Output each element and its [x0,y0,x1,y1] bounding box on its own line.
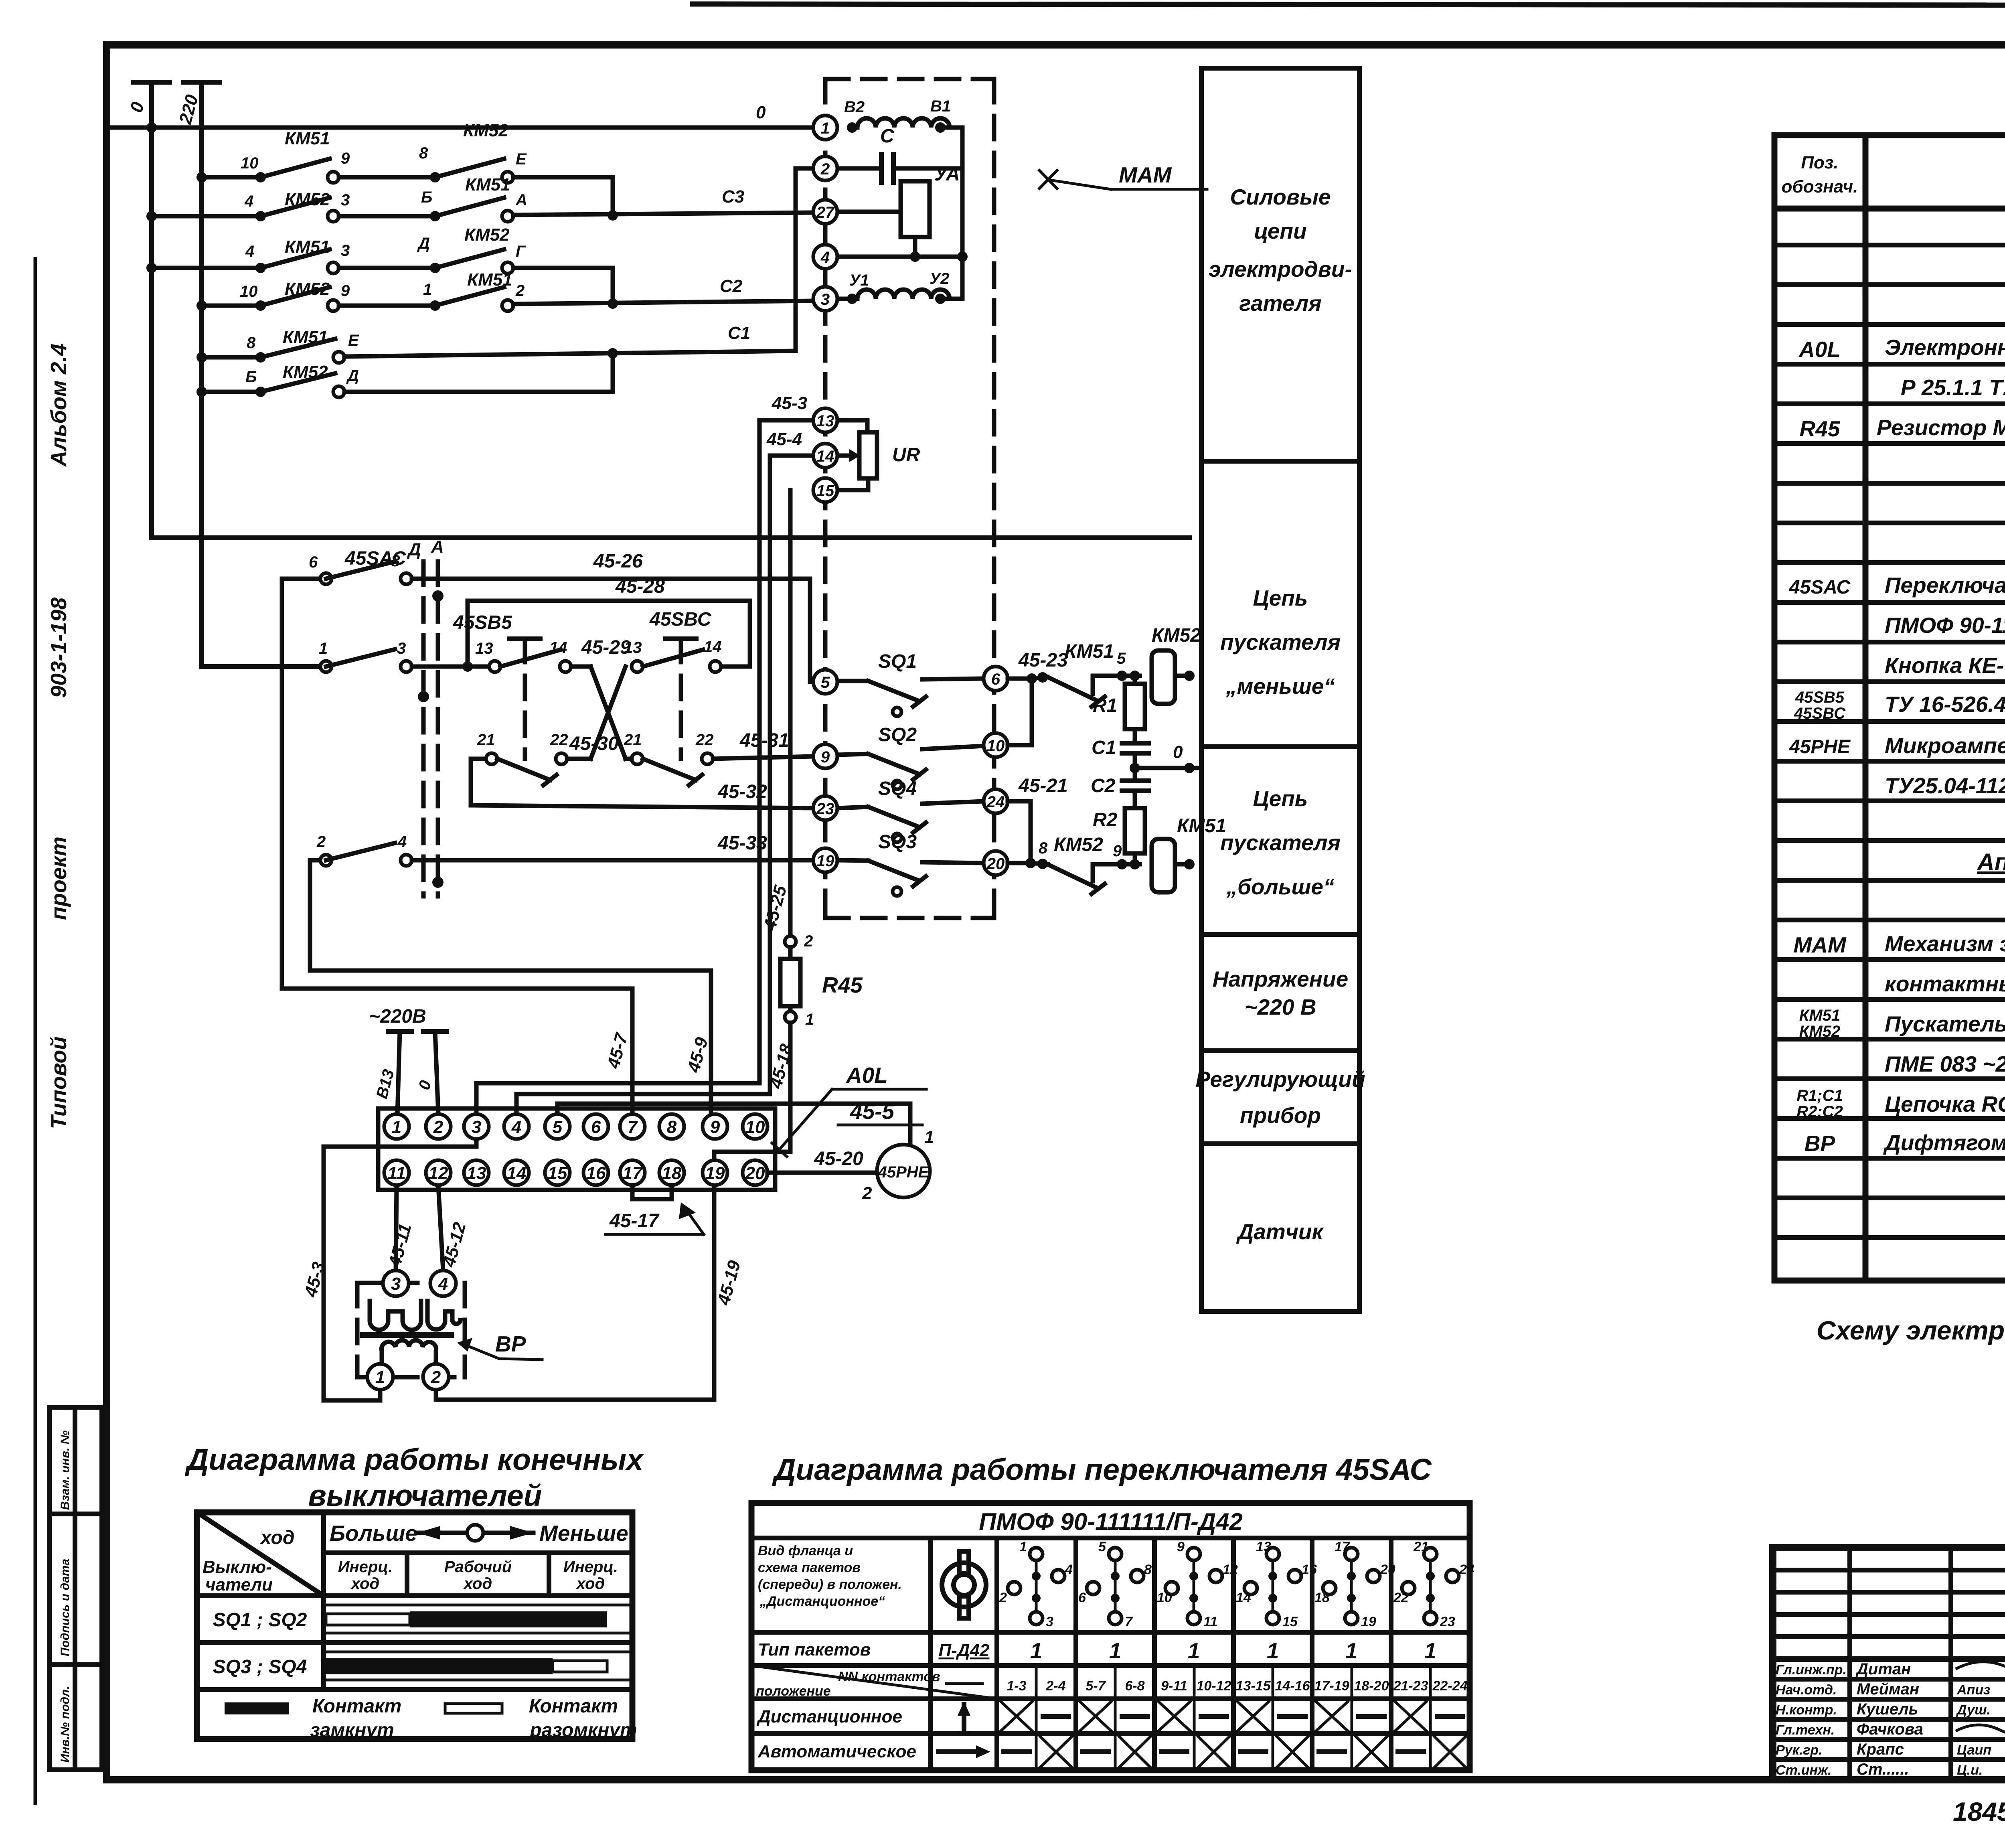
svg-text:6: 6 [991,671,1000,688]
svg-text:Поз.: Поз. [1801,153,1838,172]
svg-text:4: 4 [244,192,253,210]
svg-text:2: 2 [804,932,813,950]
relay coil YA [837,164,960,257]
svg-text:П-Д42: П-Д42 [938,1641,990,1660]
wire row 1-3 (45SAC pole) [319,640,489,672]
svg-text:1: 1 [1424,1638,1437,1663]
svg-text:ПМОФ 90-111111/П-Д42: ПМОФ 90-111111/П-Д42 [979,1508,1243,1535]
svg-text:6-8: 6-8 [1125,1678,1144,1694]
wire 45-4 riser (UR 14 to A0L pin 4) [516,456,770,1114]
svg-text:7: 7 [1125,1614,1133,1629]
contact KM51 row C [146,237,350,274]
svg-text:9: 9 [710,1117,720,1137]
inductor U1-U2 (motor winding 2) [837,128,962,304]
BP terminal circle 3 [383,1270,409,1296]
svg-text:SQ3: SQ3 [878,831,917,853]
label: starter circuit more [1220,786,1341,899]
svg-text:Д: Д [417,235,430,252]
title block [1773,1548,2005,1780]
svg-text:24: 24 [1459,1562,1474,1577]
svg-text:Мейман: Мейман [1857,1680,1919,1698]
svg-text:Переключатель малогабаритный: Переключатель малогабаритный [1885,573,2005,598]
svg-text:Силовые: Силовые [1230,184,1331,209]
svg-text:Цепь: Цепь [1253,586,1308,610]
contact KM51 row E [196,168,813,363]
svg-text:Взам. инв. №: Взам. инв. № [59,1431,72,1510]
svg-text:Р 25.1.1 ТУ 25.02.194: Р 25.1.1 ТУ 25.02.1948-76 [1901,375,2005,400]
svg-text:45-3: 45-3 [772,393,807,413]
label: voltage 220V [1213,967,1348,1019]
svg-text:Рабочий: Рабочий [444,1558,512,1576]
svg-text:Автоматическое: Автоматическое [757,1742,916,1761]
svg-text:Механизм электрический одноо: Механизм электрический однооборотный [1885,931,2005,956]
svg-text:20: 20 [986,855,1005,873]
svg-text:SQ2: SQ2 [878,724,917,746]
svg-text:Альбом 2.4: Альбом 2.4 [46,344,71,468]
svg-text:4: 4 [511,1117,521,1137]
bottom annotations [1953,1797,2005,1826]
wire bridge 45-17 pins 17-18 [606,1185,704,1234]
contact KM51 row A [196,129,350,183]
svg-text:18-20: 18-20 [1354,1678,1389,1694]
wire 45-3 to UR top terminal 13 [759,393,867,432]
A0L callout with leader [772,1063,926,1157]
svg-text:22: 22 [695,731,714,749]
svg-text:R1;С1: R1;С1 [1796,1087,1843,1104]
contact KM52 row B [146,190,350,222]
svg-text:Цаип: Цаип [1957,1743,1991,1758]
svg-text:Диаграмма работы переключа: Диаграмма работы переключателя 45SАС [772,1453,1432,1486]
svg-text:Электронный регулирующий при: Электронный регулирующий прибор [1885,335,2005,360]
svg-text:14: 14 [704,638,722,656]
svg-text:10: 10 [241,154,259,172]
contact KM52 row A [339,121,613,216]
svg-text:КМ52: КМ52 [464,225,510,245]
svg-text:Ст.инж.: Ст.инж. [1776,1763,1832,1778]
svg-text:1: 1 [1019,1539,1027,1554]
svg-text:10: 10 [745,1117,765,1137]
svg-text:ход: ход [350,1575,379,1593]
svg-text:8: 8 [391,552,400,570]
automatic position row [938,1737,1466,1767]
svg-text:4: 4 [438,1274,448,1294]
svg-text:Рук.гр.: Рук.гр. [1776,1743,1823,1758]
limit switch SQ1 [837,651,984,716]
svg-text:19: 19 [705,1163,725,1183]
svg-text:18: 18 [1314,1590,1330,1605]
svg-text:15: 15 [816,482,834,500]
wire 45-11 (pin 11 to BP 3) [385,1185,415,1270]
svg-text:Инв.№ подл.: Инв.№ подл. [59,1686,72,1763]
svg-text:1: 1 [319,640,328,657]
UR terminal circle 14 [813,444,837,468]
svg-text:Датчик: Датчик [1236,1219,1325,1244]
svg-text:прибор: прибор [1240,1103,1321,1128]
svg-text:13: 13 [475,640,493,657]
svg-text:пускателя: пускателя [1220,830,1341,855]
svg-text:Н.контр.: Н.контр. [1776,1702,1837,1718]
svg-text:„больше“: „больше“ [1226,874,1335,899]
wire 45-9 loop (45SAC pole 2 to A0L pin 9) [310,860,712,1114]
svg-text:8: 8 [1144,1562,1152,1577]
svg-text:24: 24 [986,793,1005,811]
regulator A0L terminal box [378,1108,775,1190]
svg-text:SQ3 ; SQ4: SQ3 ; SQ4 [213,1656,307,1678]
svg-text:2: 2 [431,1368,441,1387]
wire 0 tap to label column [1130,742,1201,773]
bus ~220 (right supply bus) [175,82,320,667]
svg-text:УА: УА [934,164,960,185]
svg-text:КМ52: КМ52 [1799,1023,1840,1040]
svg-text:9: 9 [341,282,350,300]
svg-text:ПМЕ 083 ~220В ОСТ 16.0536.001: ПМЕ 083 ~220В ОСТ 16.0536.001-72 [1885,1052,2005,1076]
svg-text:Микроампертетр М4206 шкала 0: Микроампертетр М4206 шкала 0÷100мкА [1885,733,2005,758]
svg-text:схема пакетов: схема пакетов [758,1560,861,1575]
RC chain C2 [1091,768,1148,808]
svg-text:1: 1 [1188,1638,1200,1663]
svg-text:2: 2 [999,1590,1007,1605]
svg-text:положение: положение [756,1684,831,1699]
svg-text:45-30: 45-30 [569,733,619,754]
limit switch SQ3 [837,831,984,896]
svg-text:проект: проект [46,837,71,920]
svg-text:1: 1 [1109,1638,1122,1663]
wire bracket 24-20 [1008,775,1068,868]
wire terminal4 row [837,251,968,262]
svg-text:Аппаратура по месту: Аппаратура по месту [1977,849,2005,875]
RC chain R1 [1093,676,1145,729]
svg-text:14: 14 [549,639,567,657]
motor terminal circle 2 [813,156,837,180]
svg-text:1: 1 [1030,1638,1043,1663]
svg-text:21: 21 [477,731,495,749]
svg-text:3: 3 [472,1117,481,1137]
svg-text:КМ52: КМ52 [463,121,508,140]
svg-text:3: 3 [821,291,830,308]
A0L pin circles row 1 [384,1114,768,1139]
svg-text:R2: R2 [1093,809,1118,831]
svg-text:R45: R45 [1800,416,1841,441]
svg-text:45SВ5: 45SВ5 [1795,689,1845,706]
svg-text:45-26: 45-26 [593,551,643,572]
svg-text:ход: ход [259,1527,295,1548]
supply ~220V terminals B13 and 0 [369,1006,447,1114]
RC chain R2 [1093,808,1145,864]
svg-text:КМ51: КМ51 [283,327,328,347]
A0L pin circles row 2 [384,1160,768,1185]
svg-text:NN контактов: NN контактов [838,1669,940,1684]
svg-text:3: 3 [397,640,406,657]
svg-text:15: 15 [548,1163,567,1183]
svg-text:17: 17 [623,1163,643,1183]
svg-text:UR: UR [892,444,920,466]
svg-text:КМ51: КМ51 [285,237,330,257]
svg-text:Ц.и.: Ц.и. [1957,1763,1983,1778]
svg-text:КМ51: КМ51 [1065,641,1114,662]
svg-text:Д: Д [346,367,359,385]
svg-text:10-12: 10-12 [1197,1678,1231,1694]
svg-text:1: 1 [805,1011,814,1028]
svg-text:1: 1 [375,1368,385,1387]
svg-text:Регулирующий: Регулирующий [1195,1067,1365,1092]
svg-text:А: А [431,537,444,557]
svg-text:12: 12 [429,1163,448,1183]
parts table rows [1789,257,2005,1156]
svg-text:3: 3 [341,191,350,209]
svg-text:6: 6 [309,553,318,571]
svg-text:2: 2 [515,282,525,300]
svg-text:3: 3 [391,1274,401,1294]
svg-text:5-7: 5-7 [1086,1678,1106,1694]
UR terminal circle 15 [813,478,837,502]
SQ terminal circle 10 [984,733,1008,757]
svg-text:SQ1 ; SQ2: SQ1 ; SQ2 [213,1609,307,1631]
svg-text:У2: У2 [930,270,949,288]
svg-text:0: 0 [756,103,766,122]
svg-text:гателя: гателя [1239,291,1321,316]
svg-text:4: 4 [245,243,254,260]
wire 45-31 to SQ terminal 9 [713,730,813,759]
svg-text:Дистанционное: Дистанционное [756,1707,902,1726]
svg-text:21: 21 [624,731,642,749]
svg-text:45-31: 45-31 [739,730,789,751]
svg-text:замкнут: замкнут [310,1720,394,1741]
svg-text:10: 10 [987,737,1005,755]
svg-text:контактный МЭО-630/63-0,25Р Г: контактный МЭО-630/63-0,25Р ГОСТ 7192-80… [1885,971,2005,996]
capacitor C [837,126,962,182]
svg-text:Дифтягомер ДТ2 ТУ25.05.14: Дифтягомер ДТ2 ТУ25.05.1489-73 [1883,1130,2005,1155]
svg-text:Тип пакетов: Тип пакетов [758,1640,871,1660]
svg-text:„меньше“: „меньше“ [1225,674,1335,699]
svg-text:КМ51: КМ51 [285,129,330,148]
svg-text:С2: С2 [720,276,743,296]
svg-text:8: 8 [247,334,256,352]
sensor BP dashed box [357,1283,465,1377]
svg-text:20: 20 [745,1163,765,1183]
svg-text:ход: ход [576,1575,605,1593]
wire 45-32 to SQ terminal 23 [471,759,813,808]
contact KM51 row D [339,270,813,311]
svg-text:С1: С1 [1092,737,1116,758]
svg-text:Гл.инж.пр.: Гл.инж.пр. [1776,1662,1847,1678]
svg-text:ВР: ВР [495,1331,526,1356]
svg-text:14: 14 [816,448,834,465]
svg-text:19: 19 [816,852,834,870]
svg-text:5: 5 [553,1117,563,1137]
svg-text:пускателя: пускателя [1220,630,1341,654]
SQ terminal circle 24 [984,789,1008,813]
bus 0 (left supply bus) [126,82,1189,538]
crossover wires 45-29 [571,637,631,759]
svg-text:23: 23 [1440,1614,1455,1629]
svg-text:КМ52: КМ52 [285,279,330,299]
svg-text:8: 8 [419,144,428,162]
svg-text:4: 4 [397,833,407,851]
svg-text:13: 13 [1256,1539,1271,1554]
svg-text:45-5: 45-5 [850,1099,895,1124]
svg-text:9: 9 [341,150,350,167]
svg-text:КМ52: КМ52 [285,190,330,209]
motor terminal circle 27 [813,200,837,224]
svg-text:1: 1 [392,1117,401,1137]
svg-text:1: 1 [1345,1638,1358,1663]
svg-text:КМ51: КМ51 [467,270,512,290]
svg-text:Е: Е [348,332,359,349]
svg-text:цепи: цепи [1254,219,1306,243]
svg-text:Нач.отд.: Нач.отд. [1776,1682,1837,1698]
svg-text:3: 3 [341,242,350,259]
svg-text:КМ52: КМ52 [1152,625,1201,646]
svg-text:Крапс: Крапс [1857,1741,1904,1758]
SQ terminal circle 20 [984,851,1008,875]
svg-text:11: 11 [1203,1614,1217,1629]
svg-text:Резистор МЛТ 2кОм;2Вт ГОСТ 7: Резистор МЛТ 2кОм;2Вт ГОСТ 7113-77Е [1877,415,2005,440]
svg-text:КМ52: КМ52 [1054,834,1103,855]
svg-text:9: 9 [1177,1539,1185,1554]
scan edge marks [34,257,37,1805]
svg-text:Фачкова: Фачкова [1857,1720,1923,1738]
svg-text:Контакт: Контакт [529,1696,618,1717]
wire 45-3 riser (UR 13 to A0L pin 3) [476,420,759,1114]
svg-text:МАМ: МАМ [1119,162,1172,187]
svg-text:8: 8 [667,1117,677,1137]
label: starter circuit less [1220,586,1341,699]
svg-text:Типовой: Типовой [46,1036,71,1129]
wire 45-18 (R45 to pin 19 top) [714,1023,797,1160]
svg-text:11: 11 [387,1163,406,1183]
wire bracket 6-10 [1008,673,1037,745]
svg-text:Инерц.: Инерц. [338,1558,393,1576]
svg-text:Схему электрического питан: Схему электрического питания см. черт. А… [1817,1315,2005,1345]
wire 45-23 junction row1 [1018,650,1068,683]
label: regulating device [1195,1067,1365,1128]
coil KM51 [1152,815,1226,892]
svg-text:14: 14 [507,1163,527,1183]
svg-text:45-29: 45-29 [581,637,631,658]
selector diagram table grid [751,1503,1470,1770]
svg-text:23: 23 [816,800,834,818]
svg-text:КМ52: КМ52 [283,362,328,382]
svg-text:21-23: 21-23 [1393,1678,1428,1694]
left bottom stamp table [49,1407,102,1770]
selector flange symbol [942,1551,986,1618]
svg-text:С: С [880,126,895,147]
svg-text:9-11: 9-11 [1161,1678,1187,1694]
svg-text:R45: R45 [822,973,863,997]
label: power circuits [1209,184,1352,316]
svg-text:4: 4 [820,249,830,266]
svg-text:~220В: ~220В [369,1006,426,1027]
diagram legend [225,1696,637,1741]
svg-text:Цепь: Цепь [1253,786,1308,811]
svg-text:15: 15 [1282,1614,1298,1629]
BP differential transformer [363,1301,460,1364]
svg-text:903-1-198: 903-1-198 [46,597,71,698]
contact KM51 row B [339,175,813,222]
pushbutton 45SB5 lower contact row 21-22 [471,731,619,785]
45SAC switch shaft dashed pair DA [407,537,444,896]
wire 45-7 loop (45SAC pole 6 to A0L pin 7) [282,579,632,1114]
remote position row [958,1701,1463,1731]
SQ terminal circle 23 [813,796,837,820]
motor terminal circle 3 [813,287,837,311]
svg-text:„Дистанционное“: „Дистанционное“ [759,1594,885,1609]
wire 45-25 riser (UR 15 to R45) [760,490,791,936]
svg-text:16: 16 [586,1163,606,1183]
svg-text:20: 20 [1380,1562,1395,1577]
svg-text:Подпись и дата: Подпись и дата [59,1559,72,1656]
svg-text:Е: Е [516,150,527,168]
SQ terminal circle 19 [813,848,837,872]
svg-text:Гл.техн.: Гл.техн. [1776,1722,1835,1738]
svg-text:1: 1 [423,281,432,298]
selector diagram left labels [756,1543,940,1761]
svg-text:Напряжение: Напряжение [1213,967,1348,991]
wire 45-20 (pin 20 to 45PHE) [768,1148,877,1173]
limit switch SQ2 [837,724,984,789]
svg-text:разомкнут: разомкнут [529,1720,637,1741]
svg-text:1: 1 [1267,1638,1279,1663]
contact KM52 row C [339,225,613,306]
svg-text:2: 2 [316,833,326,851]
wire 0 to motor terminal 1 [107,103,813,133]
contact number row values [946,1678,1468,1694]
parts list table grid [1774,135,2005,1281]
coil KM52 [1152,625,1201,704]
svg-text:22: 22 [550,731,568,749]
wire 45-4 to UR wiper terminal 14 [766,430,860,462]
svg-text:5: 5 [1117,650,1126,667]
wire 45-33 row with 45SAC pole 2-4 [310,833,813,866]
svg-text:Больше: Больше [330,1521,417,1546]
svg-text:6: 6 [1078,1590,1086,1605]
svg-text:чатели: чатели [205,1575,273,1595]
svg-text:Меньше: Меньше [539,1521,628,1546]
svg-text:МАМ: МАМ [1793,932,1847,957]
resistor UR (potentiometer) [837,432,920,490]
svg-text:Вид фланца и: Вид фланца и [758,1543,853,1558]
diagram header texts [203,1521,628,1595]
svg-text:Инерц.: Инерц. [563,1558,618,1576]
title block signatures [1776,1660,2005,1778]
svg-text:18454- 25 53: 18454- 25 53 [1953,1797,2005,1826]
svg-text:45-21: 45-21 [1018,775,1068,796]
svg-text:7: 7 [628,1117,638,1137]
wire 45-28 bypass box [468,576,750,667]
diagram row SQ3;SQ4 [213,1652,632,1680]
pushbutton 45SB5 (upper contact) [453,612,571,759]
svg-text:SQ4: SQ4 [878,778,917,799]
svg-text:5: 5 [821,674,830,691]
BP callout [457,1331,542,1360]
svg-text:3: 3 [1046,1614,1053,1629]
pushbutton 45SBC lower contact [624,731,714,785]
svg-text:Контакт: Контакт [312,1696,401,1717]
motor terminal circle 1 [813,115,837,140]
svg-text:ТУ25.04-1123-73: ТУ25.04-1123-73 [1885,773,2005,798]
limit switch diagram table [197,1512,632,1739]
svg-text:4: 4 [1065,1562,1073,1577]
svg-text:ВР: ВР [1804,1131,1835,1156]
contact KM52 (row 19-20) [1031,834,1140,894]
svg-text:18: 18 [662,1163,682,1183]
svg-text:обознач.: обознач. [1782,177,1858,197]
contact KM51 (starter interlock, row 5) [1047,641,1140,707]
svg-text:6: 6 [591,1117,601,1137]
wire 45-26 row with 45SAC pole 6-8 [282,548,813,682]
svg-text:Цепочка RС: Цепочка RС [1885,1092,2005,1116]
svg-text:9: 9 [821,748,830,766]
